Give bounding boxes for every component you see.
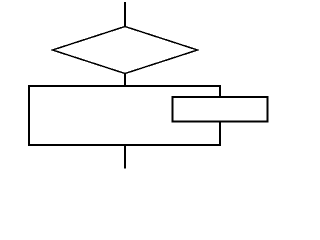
wire top connector <box>124 2 126 27</box>
wire diamond to process box <box>124 73 126 86</box>
process rectangle <box>29 86 220 145</box>
wire bottom connector <box>124 145 126 169</box>
decision diamond <box>53 27 198 74</box>
overlapping sub-process rectangle <box>173 97 268 122</box>
